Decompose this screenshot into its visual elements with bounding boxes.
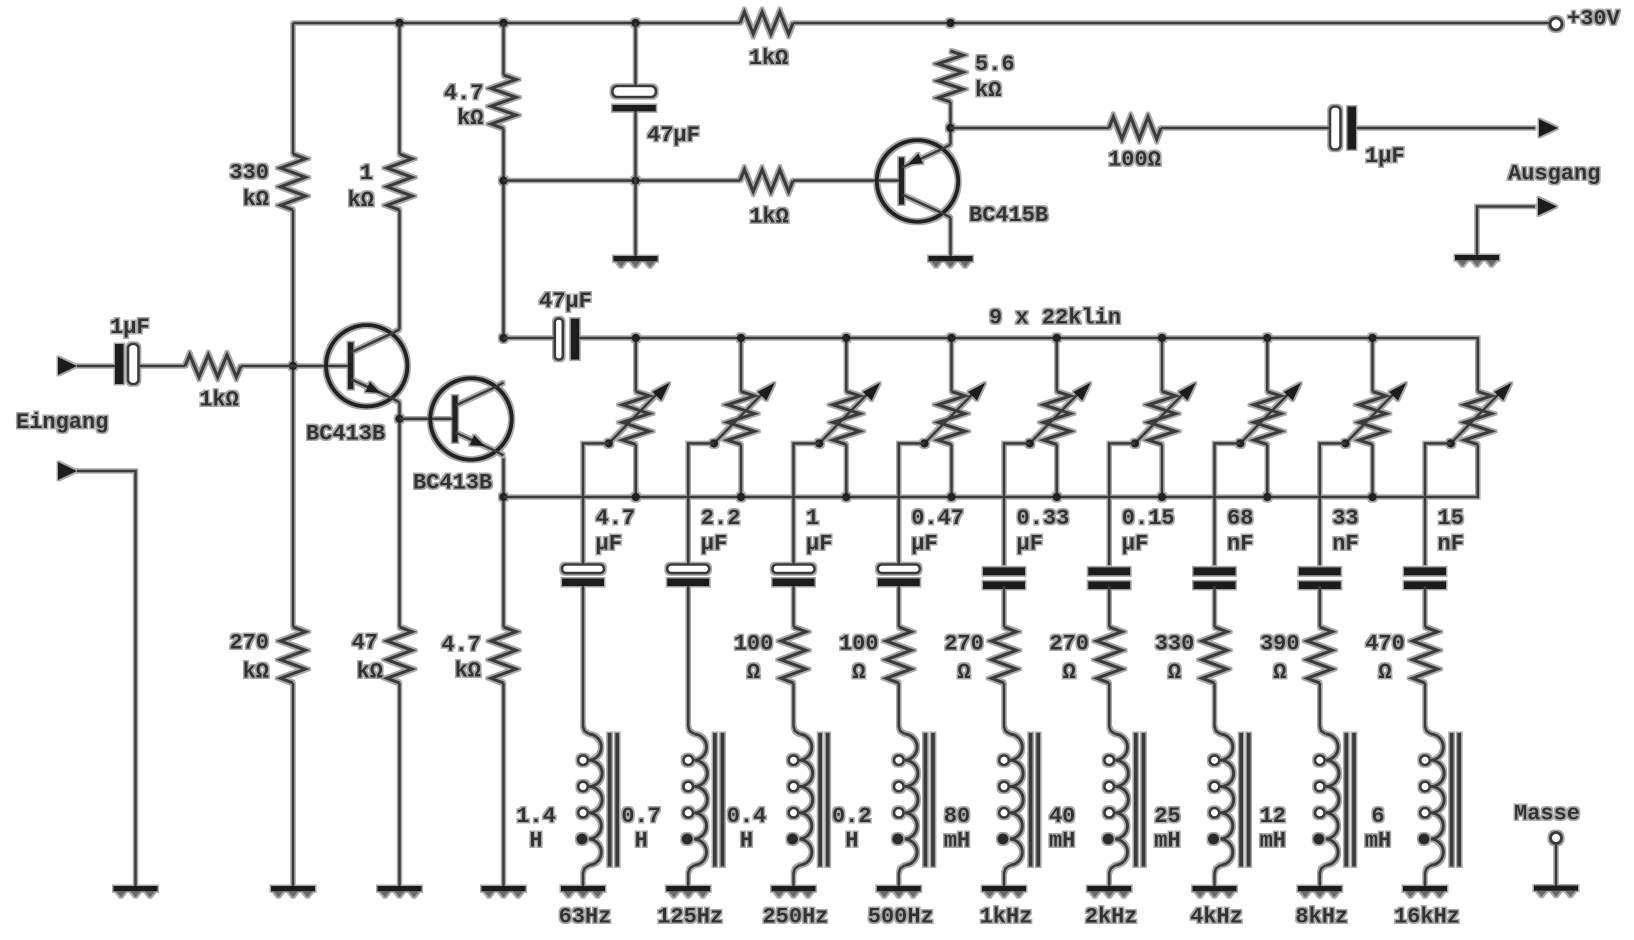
svg-text:100: 100 (839, 632, 879, 657)
svg-text:H: H (845, 829, 858, 854)
label 9 x 22klin (989, 306, 1121, 331)
svg-text:1kΩ: 1kΩ (749, 46, 789, 71)
resistor 100Ohm band 4 (839, 627, 911, 685)
resistor 4.7kOhm emitter (441, 627, 516, 684)
svg-text:1.4: 1.4 (516, 804, 556, 829)
svg-text:Masse: Masse (1514, 802, 1580, 827)
svg-text:2.2: 2.2 (701, 506, 741, 531)
inductor 80mH band 5 (944, 727, 1038, 887)
wire pot 7 wiper to cap (1215, 443, 1241, 565)
svg-text:9 x 22klin: 9 x 22klin (989, 306, 1121, 331)
svg-text:kΩ: kΩ (975, 78, 1001, 103)
svg-text:Ω: Ω (1063, 660, 1076, 685)
inductor 6mH band 9 (1365, 727, 1459, 887)
capacitor 0.33µF band 5 (983, 506, 1069, 589)
label 2kHz (1085, 905, 1138, 930)
svg-text:1kHz: 1kHz (980, 905, 1033, 930)
ground Q3 emitter (929, 259, 973, 268)
node +30V terminal (1550, 7, 1621, 32)
svg-text:1µF: 1µF (1365, 144, 1405, 169)
svg-text:8kHz: 8kHz (1295, 905, 1348, 930)
ground output (1455, 258, 1499, 267)
wire band 1 cap to coil (582, 586, 585, 727)
svg-text:270: 270 (1049, 632, 1089, 657)
inductor 0.4H band 3 (727, 727, 828, 887)
svg-text:H: H (740, 829, 753, 854)
node 47uF-base junction (631, 176, 639, 184)
svg-text:0.33: 0.33 (1017, 506, 1070, 531)
wire band 9 cap to resistor (1424, 586, 1427, 627)
wire Q3 emitter to ground (949, 218, 952, 257)
resistor 100Ohm (1108, 117, 1161, 172)
svg-text:+30V: +30V (1567, 7, 1621, 32)
node output ground terminal arrow (1538, 198, 1557, 216)
wire pot bottom bus (504, 445, 1478, 498)
wire Q1 emitter to Q2 base (400, 417, 456, 420)
capacitor 4.7µF band 1 (562, 506, 635, 586)
capacitor 0.47µF band 4 (878, 506, 964, 586)
svg-text:kΩ: kΩ (455, 659, 481, 684)
svg-text:µF: µF (806, 532, 832, 557)
ground band 3 (772, 889, 816, 898)
svg-text:63Hz: 63Hz (559, 905, 612, 930)
wire pot 3 branch (845, 338, 848, 497)
label 125Hz (657, 905, 723, 930)
capacitor 1uF output (1330, 107, 1405, 170)
label 8kHz (1295, 905, 1348, 930)
potentiometer 7 22k lin (1240, 383, 1301, 445)
wire pot 1 branch (634, 338, 637, 497)
svg-text:270: 270 (944, 632, 984, 657)
node pot 8 top junction (1368, 334, 1376, 342)
svg-text:BC415B: BC415B (969, 203, 1048, 228)
potentiometer 4 22k lin (925, 383, 986, 445)
ground 47k (378, 889, 422, 898)
svg-text:nF: nF (1332, 532, 1358, 557)
wire pot 3 wiper to cap (794, 443, 820, 565)
potentiometer 3 22k lin (819, 383, 880, 445)
svg-text:Eingang: Eingang (16, 410, 108, 435)
svg-text:2kHz: 2kHz (1085, 905, 1138, 930)
svg-text:BC413B: BC413B (413, 471, 492, 496)
node pot 4 bottom junction (947, 493, 955, 501)
svg-text:0.15: 0.15 (1122, 506, 1175, 531)
wire Q3 collector column (949, 102, 952, 145)
svg-text:4.7: 4.7 (444, 81, 484, 106)
svg-text:47µF: 47µF (647, 123, 700, 148)
wire band 6 resistor to coil (1108, 683, 1111, 727)
transistor Q2 BC413B (413, 378, 512, 495)
node pot 8 bottom junction (1368, 493, 1376, 501)
ground input (114, 889, 158, 898)
svg-text:1: 1 (360, 161, 373, 186)
label Masse (1514, 802, 1580, 827)
resistor 390Ohm band 8 (1260, 627, 1332, 685)
svg-text:Ω: Ω (747, 660, 760, 685)
label Ausgang (1508, 162, 1600, 187)
svg-text:5.6: 5.6 (975, 52, 1015, 77)
svg-text:mH: mH (1154, 829, 1180, 854)
wire band 5 cap to resistor (1003, 586, 1006, 627)
capacitor 68nF band 7 (1194, 506, 1254, 589)
svg-text:µF: µF (596, 532, 622, 557)
svg-text:80: 80 (944, 804, 970, 829)
wire 4.7k column (502, 23, 505, 886)
resistor 5.6kOhm (938, 51, 1015, 103)
node pot 3 bottom junction (842, 493, 850, 501)
wire pot 8 branch (1371, 338, 1374, 497)
inductor 12mH band 8 (1260, 727, 1354, 887)
svg-text:nF: nF (1227, 532, 1253, 557)
svg-text:nF: nF (1438, 532, 1464, 557)
wire band 8 cap to resistor (1319, 586, 1322, 627)
node pot 5 wiper dot (1026, 439, 1034, 447)
capacitor 47uF decoupling (612, 86, 699, 148)
wire pot 4 branch (950, 338, 953, 497)
node output terminal arrow (1539, 119, 1558, 137)
node base-line junction (499, 176, 507, 184)
wire pot 6 wiper to cap (1109, 443, 1135, 565)
ground band 5 (982, 889, 1026, 898)
node Q1 base junction (289, 362, 297, 370)
capacitor 47uF coupling (539, 289, 592, 360)
capacitor 2.2µF band 2 (667, 506, 740, 586)
node pot 7 bottom junction (1263, 493, 1271, 501)
potentiometer 6 22k lin (1135, 383, 1196, 445)
ground band 1 (561, 889, 605, 898)
wire pot 2 wiper to cap (688, 443, 714, 565)
wire input to cap (77, 365, 115, 368)
resistor 270Ohm band 5 (944, 627, 1016, 685)
svg-text:0.4: 0.4 (727, 804, 767, 829)
svg-text:1kΩ: 1kΩ (749, 205, 789, 230)
wire 330k column (292, 23, 295, 886)
svg-text:0.47: 0.47 (911, 506, 964, 531)
inductor 25mH band 7 (1154, 727, 1248, 887)
svg-text:4.7: 4.7 (596, 506, 636, 531)
resistor 1kOhm rail decoupling (740, 12, 793, 71)
svg-text:mH: mH (1049, 829, 1075, 854)
svg-text:mH: mH (1365, 829, 1391, 854)
resistor 330Ohm band 7 (1155, 627, 1227, 685)
svg-text:40: 40 (1049, 804, 1075, 829)
svg-text:kΩ: kΩ (243, 187, 269, 212)
svg-text:1µF: 1µF (110, 315, 150, 340)
resistor 47kOhm (352, 627, 412, 685)
wire band 3 resistor to coil (792, 683, 795, 727)
wire band 7 cap to resistor (1213, 586, 1216, 627)
wire pot 8 wiper to cap (1320, 443, 1346, 565)
ground band 6 (1087, 889, 1131, 898)
ground 47uF (614, 259, 658, 268)
resistor 1kOhm input (185, 355, 241, 413)
wire band 3 cap to resistor (792, 586, 795, 627)
resistor 470Ohm band 9 (1365, 627, 1437, 685)
svg-text:Ausgang: Ausgang (1508, 162, 1600, 187)
svg-text:15: 15 (1438, 506, 1464, 531)
svg-text:H: H (635, 829, 648, 854)
ground band 7 (1193, 889, 1237, 898)
node pot 3 wiper dot (815, 439, 823, 447)
svg-text:125Hz: 125Hz (657, 905, 723, 930)
transistor Q3 BC415B (877, 140, 1048, 228)
resistor 330kOhm (229, 154, 305, 212)
svg-text:470: 470 (1365, 632, 1405, 657)
svg-text:68: 68 (1227, 506, 1253, 531)
ground band 8 (1298, 889, 1342, 898)
inductor 40mH band 6 (1049, 727, 1144, 887)
ground 270k (271, 889, 315, 898)
svg-text:Ω: Ω (957, 660, 970, 685)
wire Masse to ground (1555, 844, 1558, 887)
capacitor 1µF band 3 (773, 506, 833, 586)
label 63Hz (559, 905, 612, 930)
svg-text:1kΩ: 1kΩ (199, 388, 239, 413)
wire pot 5 branch (1056, 338, 1059, 497)
capacitor 0.15µF band 6 (1088, 506, 1174, 589)
node pot 9 wiper dot (1447, 439, 1455, 447)
wire Q3 base line (504, 179, 903, 182)
wire 1k column (398, 23, 401, 886)
wire +30V supply rail (293, 22, 1550, 25)
svg-text:500Hz: 500Hz (868, 905, 934, 930)
node rail-1k junction dots (395, 19, 954, 27)
resistor 270kOhm (229, 627, 305, 685)
ground band 4 (877, 889, 921, 898)
node input ground terminal arrow (58, 462, 77, 480)
ground band 9 (1403, 889, 1447, 898)
label 16kHz (1394, 905, 1460, 930)
svg-text:4.7: 4.7 (441, 633, 481, 658)
potentiometer 5 22k lin (1030, 383, 1091, 445)
node pot 2 wiper dot (710, 439, 718, 447)
resistor 1kOhm base (740, 170, 793, 230)
svg-text:Ω: Ω (1273, 660, 1286, 685)
svg-text:µF: µF (1017, 532, 1043, 557)
potentiometer 2 22k lin (714, 383, 775, 445)
svg-text:6: 6 (1371, 804, 1384, 829)
wire pot 6 branch (1161, 338, 1164, 497)
svg-text:Ω: Ω (1378, 660, 1391, 685)
svg-text:16kHz: 16kHz (1394, 905, 1460, 930)
resistor 4.7kOhm collector load (444, 75, 516, 131)
node Masse terminal (1551, 833, 1562, 844)
node pot 5 bottom junction (1053, 493, 1061, 501)
resistor 1kOhm bias (348, 154, 412, 213)
node pot 6 wiper dot (1131, 439, 1139, 447)
transistor Q1 BC413B (306, 325, 407, 446)
svg-text:µF: µF (701, 532, 727, 557)
svg-text:mH: mH (1260, 829, 1286, 854)
svg-text:H: H (529, 829, 542, 854)
svg-text:0.7: 0.7 (621, 804, 661, 829)
node pot 4 top junction (947, 334, 955, 342)
node pot 7 wiper dot (1236, 439, 1244, 447)
svg-text:Ω: Ω (1168, 660, 1181, 685)
node pot 8 wiper dot (1341, 439, 1349, 447)
wire pot 4 wiper to cap (899, 443, 925, 565)
svg-text:270: 270 (229, 631, 269, 656)
svg-text:25: 25 (1154, 804, 1180, 829)
inductor 0.2H band 4 (832, 727, 933, 887)
wire collector to coupling cap (504, 337, 556, 340)
capacitor 1uF input (110, 315, 150, 384)
node pot 5 top junction (1053, 334, 1061, 342)
label 4kHz (1190, 905, 1243, 930)
svg-text:Ω: Ω (852, 660, 865, 685)
wire cap to 1k (139, 365, 186, 368)
svg-text:100Ω: 100Ω (1108, 147, 1161, 172)
svg-text:12: 12 (1260, 804, 1286, 829)
wire band 5 resistor to coil (1003, 683, 1006, 727)
svg-text:330: 330 (1155, 632, 1195, 657)
node pot 6 top junction (1158, 334, 1166, 342)
node pot 3 top junction (842, 334, 850, 342)
wire 47uF column (634, 23, 637, 256)
label 500Hz (868, 905, 934, 930)
svg-text:kΩ: kΩ (243, 660, 269, 685)
label 250Hz (762, 905, 828, 930)
node Q3 collector junction (946, 124, 954, 132)
wire 1k to Q1 base (241, 365, 351, 368)
svg-text:330: 330 (229, 161, 269, 186)
label Eingang (16, 410, 108, 435)
capacitor 15nF band 9 (1404, 506, 1464, 589)
ground 4.7k emitter (482, 889, 526, 898)
node pot 1 wiper dot (605, 439, 613, 447)
ground band 2 (666, 889, 710, 898)
svg-text:µF: µF (911, 532, 937, 557)
node pot 1 top junction (632, 334, 640, 342)
svg-text:47: 47 (352, 631, 378, 656)
potentiometer 8 22k lin (1346, 383, 1407, 445)
svg-text:kΩ: kΩ (348, 188, 374, 213)
wire pot 5 wiper to cap (1004, 443, 1030, 565)
node pot 2 bottom junction (737, 493, 745, 501)
svg-text:4kHz: 4kHz (1190, 905, 1243, 930)
wire band 9 resistor to coil (1424, 683, 1427, 727)
wire band 8 resistor to coil (1319, 683, 1322, 727)
node pot 4 wiper dot (920, 439, 928, 447)
wire pot 1 wiper to cap (583, 443, 609, 565)
node collector-cap junction (499, 334, 507, 342)
wire input ground return (77, 471, 136, 886)
label 1kHz (980, 905, 1033, 930)
svg-text:100: 100 (734, 632, 774, 657)
wire pot 9 wiper to cap (1425, 443, 1451, 565)
svg-text:kΩ: kΩ (457, 106, 483, 131)
node pot 1 bottom junction (632, 493, 640, 501)
wire output line (951, 127, 1536, 130)
wire band 7 resistor to coil (1213, 683, 1216, 727)
wire band 6 cap to resistor (1108, 586, 1111, 627)
wire band 4 resistor to coil (897, 683, 900, 727)
svg-text:BC413B: BC413B (306, 422, 385, 447)
node pot 7 top junction (1263, 334, 1271, 342)
capacitor 33nF band 8 (1299, 506, 1359, 589)
node pot 6 bottom junction (1158, 493, 1166, 501)
node Q1 emitter junction (395, 415, 403, 423)
ground Masse (1534, 888, 1578, 897)
potentiometer 1 22k lin (609, 383, 670, 445)
wire band 2 cap to coil (687, 586, 690, 727)
node input terminal arrow (58, 357, 77, 375)
svg-text:390: 390 (1260, 632, 1300, 657)
svg-text:kΩ: kΩ (357, 660, 383, 685)
svg-text:0.2: 0.2 (832, 804, 872, 829)
wire pot 7 branch (1266, 338, 1269, 497)
node emitter-bus junction (499, 493, 507, 501)
svg-text:mH: mH (944, 829, 970, 854)
resistor 100Ohm band 3 (734, 627, 806, 685)
resistor 270Ohm band 6 (1049, 627, 1121, 685)
svg-text:33: 33 (1332, 506, 1358, 531)
wire output ground branch (1477, 207, 1535, 256)
potentiometer 9 22k lin (1451, 383, 1512, 445)
svg-text:47µF: 47µF (539, 289, 592, 314)
wire band 4 cap to resistor (897, 586, 900, 627)
node pot 2 top junction (737, 334, 745, 342)
wire pot 2 branch (740, 338, 743, 497)
svg-text:µF: µF (1122, 532, 1148, 557)
svg-text:1: 1 (806, 506, 819, 531)
inductor 1.4H band 1 (516, 727, 617, 887)
wire pot top bus (579, 338, 1478, 392)
inductor 0.7H band 2 (621, 727, 722, 887)
svg-text:250Hz: 250Hz (762, 905, 828, 930)
